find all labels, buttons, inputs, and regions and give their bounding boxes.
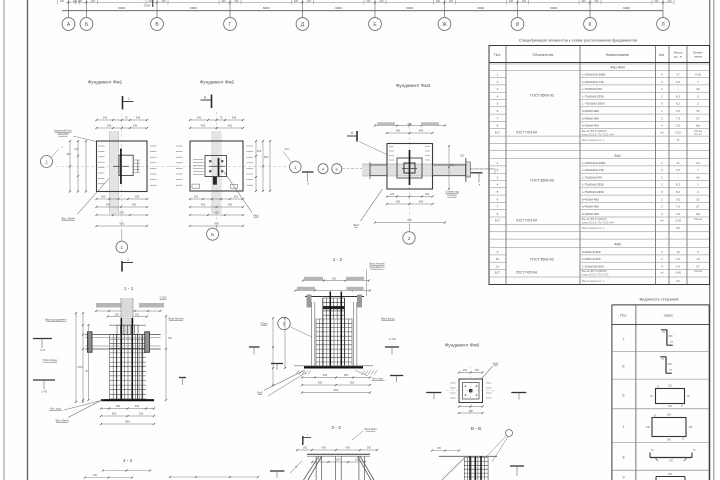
svg-text:b-400х6-400: b-400х6-400 <box>582 205 599 209</box>
svg-text:Фундамент Фм6: Фундамент Фм6 <box>445 343 480 348</box>
svg-text:8,2: 8,2 <box>676 183 681 187</box>
svg-text:1500: 1500 <box>77 366 83 369</box>
svg-text:ГОСТ 8509-93: ГОСТ 8509-93 <box>530 179 553 183</box>
svg-text:6,6: 6,6 <box>676 80 681 84</box>
elevation tmark right of plan Фм2 <box>302 172 314 186</box>
plan Фм1 footing outline <box>97 141 148 192</box>
svg-text:Фм1 (Фм4): Фм1 (Фм4) <box>55 419 68 423</box>
svg-text:L-100х63х6-2990: L-100х63х6-2990 <box>582 73 606 77</box>
plan Фм2 leader Фм2 <box>224 172 259 218</box>
svg-text:27: 27 <box>676 161 680 165</box>
plan Фм1 top dimensions <box>95 116 148 130</box>
svg-text:220: 220 <box>667 0 672 3</box>
svg-text:220: 220 <box>522 0 527 3</box>
svg-text:колонну: колонну <box>447 194 457 197</box>
svg-text:190: 190 <box>101 195 106 199</box>
svg-text:0,4: 0,4 <box>696 161 701 165</box>
plan Фм3 beam band <box>362 164 470 176</box>
section 1-1 upper callouts <box>96 296 167 308</box>
plan Фм1 anchor axis <box>113 149 129 185</box>
svg-text:220: 220 <box>379 0 384 3</box>
svg-text:57: 57 <box>696 116 700 120</box>
svg-text:0,000: 0,000 <box>160 296 167 300</box>
bar row 6 <box>623 357 673 374</box>
svg-text:150: 150 <box>689 426 694 429</box>
svg-text:Наименование: Наименование <box>606 53 630 57</box>
svg-text:b-100х8-450: b-100х8-450 <box>582 212 599 216</box>
svg-text:600: 600 <box>120 211 125 215</box>
svg-text:450: 450 <box>106 203 111 207</box>
svg-text:Анкерный болт: Анкерный болт <box>54 129 73 133</box>
svg-text:71: 71 <box>676 138 680 142</box>
svg-text:6000: 6000 <box>263 6 270 10</box>
svg-text:Фундамент Фм3: Фундамент Фм3 <box>396 83 431 88</box>
section 2-2 top dimensions <box>294 277 371 292</box>
plan Фм2 title <box>200 80 235 85</box>
svg-text:6000: 6000 <box>478 6 485 10</box>
svg-text:L-75х50х5-2930: L-75х50х5-2930 <box>582 94 604 98</box>
svg-text:класс В22,5; П3; F100; W4: класс В22,5; П3; F100; W4 <box>582 221 614 225</box>
svg-text:10: 10 <box>496 257 500 261</box>
svg-text:0,08: 0,08 <box>695 73 701 77</box>
svg-text:Л: Л <box>661 22 664 28</box>
plan Фм3 top dimensions <box>374 122 446 134</box>
svg-text:1: 1 <box>45 160 48 165</box>
svg-text:52: 52 <box>696 197 700 201</box>
svg-text:7,9: 7,9 <box>676 116 681 120</box>
plan Фм3 left beam arm <box>370 162 387 179</box>
axis circle Е <box>369 11 382 31</box>
plan Фм3 right coupling <box>460 154 495 187</box>
svg-text:600: 600 <box>350 381 355 385</box>
svg-text:5: 5 <box>623 394 625 398</box>
svg-text:6000: 6000 <box>550 6 557 10</box>
section 3-3 top dimensions <box>296 447 378 452</box>
section 2-2 base hatch <box>296 371 377 375</box>
svg-text:L-75х50х5-2930: L-75х50х5-2930 <box>582 183 604 187</box>
axis circle Д <box>296 11 309 31</box>
svg-text:ГОСТ 8509-93: ГОСТ 8509-93 <box>530 94 553 98</box>
svg-text:b-450х6-400: b-450х6-400 <box>582 116 599 120</box>
svg-text:6000: 6000 <box>406 6 413 10</box>
svg-text:Фундамент Фм1: Фундамент Фм1 <box>88 80 123 85</box>
svg-text:К: К <box>589 22 592 28</box>
section 1-1 top dimensions <box>95 310 162 318</box>
bar row 1 <box>623 414 694 442</box>
svg-text:90: 90 <box>696 175 700 179</box>
section 3-3 title <box>331 425 341 431</box>
plan Фм6 top dimensions <box>458 369 484 374</box>
section 1-1 column above <box>121 298 133 335</box>
svg-text:8,2: 8,2 <box>676 94 681 98</box>
svg-text:9,5: 9,5 <box>676 197 681 201</box>
svg-text:6000: 6000 <box>190 6 197 10</box>
svg-text:1: 1 <box>497 73 499 77</box>
plan Фм1 bottom dimensions <box>95 195 148 228</box>
svg-text:340: 340 <box>133 124 138 128</box>
svg-text:9,5: 9,5 <box>676 109 681 113</box>
section 2-2 anchor bolts <box>330 292 341 368</box>
svg-text:1: 1 <box>623 425 625 429</box>
svg-text:220: 220 <box>78 0 83 3</box>
section 1-1 beam <box>85 332 161 353</box>
svg-text:Г: Г <box>229 22 232 28</box>
svg-text:240: 240 <box>103 116 108 120</box>
svg-text:Верх фунд.: Верх фунд. <box>381 317 395 321</box>
plan Фм2 anchor axis <box>209 158 225 185</box>
svg-text:450: 450 <box>228 124 233 128</box>
svg-text:450: 450 <box>201 124 206 128</box>
section 2-2 side rails <box>312 302 357 366</box>
svg-text:2LC: 2LC <box>285 147 290 151</box>
svg-text:Бет. подг.: Бет. подг. <box>50 407 61 411</box>
svg-text:350: 350 <box>407 122 412 126</box>
section 4-4 title <box>123 458 133 463</box>
svg-text:0,32: 0,32 <box>675 131 681 135</box>
svg-text:220: 220 <box>307 0 312 3</box>
svg-text:220: 220 <box>436 0 441 3</box>
section В-В title <box>471 426 481 431</box>
bar row 5 <box>623 385 691 409</box>
svg-text:16: 16 <box>676 250 680 254</box>
section 2-2 top plate <box>305 295 364 308</box>
svg-text:280: 280 <box>667 439 672 442</box>
callout circle right of plan Фм2 <box>283 147 301 173</box>
svg-text:300: 300 <box>135 313 140 316</box>
svg-text:220: 220 <box>668 405 673 408</box>
svg-text:450: 450 <box>228 203 233 207</box>
plan Фм3 section flag А <box>347 131 388 155</box>
svg-text:220: 220 <box>449 0 454 3</box>
plan Фм2 bottom axis circle <box>207 225 219 240</box>
svg-text:3 - 3: 3 - 3 <box>331 425 341 431</box>
svg-text:150: 150 <box>355 459 360 462</box>
section 1-1 bottom leader <box>50 399 105 423</box>
svg-text:900: 900 <box>125 420 130 424</box>
plan Фм6 left tmark <box>426 393 441 400</box>
svg-text:Всего массы м. п.: Всего массы м. п. <box>582 279 605 283</box>
section 3-3 right callout <box>352 427 377 440</box>
svg-text:220: 220 <box>91 0 96 3</box>
svg-text:8: 8 <box>497 212 499 216</box>
svg-text:600: 600 <box>214 211 219 215</box>
plan Фм3 callout right below <box>445 190 459 198</box>
svg-text:Бет. подг.: Бет. подг. <box>372 376 383 380</box>
plan Фм3 footing outline <box>387 144 433 190</box>
svg-text:450: 450 <box>66 152 71 156</box>
plan Фм1 column band <box>110 131 119 214</box>
svg-text:300: 300 <box>303 447 308 450</box>
svg-text:450: 450 <box>201 203 206 207</box>
svg-text:450: 450 <box>322 447 327 450</box>
svg-text:5: 5 <box>497 190 499 194</box>
svg-text:b-250х10-250: b-250х10-250 <box>582 257 601 261</box>
svg-text:420: 420 <box>669 460 674 463</box>
svg-text:450: 450 <box>132 203 137 207</box>
svg-text:190: 190 <box>234 195 239 199</box>
svg-text:150: 150 <box>646 426 651 429</box>
plan Фм6 corner dots <box>465 385 478 396</box>
section 1-1 left dimensions <box>75 312 90 403</box>
svg-text:300: 300 <box>469 410 474 413</box>
svg-text:7: 7 <box>497 116 499 120</box>
plan Фм3 title <box>396 83 431 88</box>
plan Фм2 base plate <box>192 156 238 189</box>
svg-text:Фм2: Фм2 <box>257 391 263 395</box>
bar row 9 (cut) <box>623 473 686 480</box>
svg-text:82: 82 <box>676 226 680 230</box>
svg-text:6: 6 <box>497 197 499 201</box>
plan Фм2 right dimensions <box>255 140 271 192</box>
svg-text:150: 150 <box>139 412 144 416</box>
section 2-2 bottom dimensions <box>257 370 384 396</box>
axis circle А <box>62 11 75 31</box>
bar schedule header <box>620 314 673 318</box>
svg-text:БСГ: БСГ <box>495 219 501 223</box>
plan Фм2 footing outline <box>190 141 243 191</box>
svg-text:Фм6: Фм6 <box>493 362 499 366</box>
section В-В ground line <box>439 455 497 457</box>
spec group Фм5 <box>489 243 710 283</box>
svg-text:Обозначение: Обозначение <box>533 53 554 57</box>
svg-text:240: 240 <box>668 473 673 476</box>
svg-text:м³: м³ <box>661 271 664 275</box>
section 2-2 left callout circle <box>278 317 312 337</box>
svg-text:1: 1 <box>497 161 499 165</box>
svg-text:6000: 6000 <box>118 6 125 10</box>
svg-text:190: 190 <box>194 195 199 199</box>
axis circle И <box>511 11 524 31</box>
axis circle Б <box>80 11 93 31</box>
section 1-1 cut flag <box>122 258 133 272</box>
svg-text:450: 450 <box>396 129 401 133</box>
plan Фм6 outline <box>459 379 483 403</box>
svg-text:6000: 6000 <box>623 6 630 10</box>
plan Фм6 side marks <box>450 383 492 398</box>
svg-text:4: 4 <box>497 94 499 98</box>
svg-text:450: 450 <box>419 200 424 204</box>
svg-text:450: 450 <box>344 373 349 377</box>
svg-text:Бм: Бм <box>696 212 700 216</box>
spec table frame <box>489 46 710 285</box>
plan Фм1 base plate <box>119 155 140 175</box>
bar schedule title <box>640 297 679 302</box>
svg-text:ГОСТ 7473-94: ГОСТ 7473-94 <box>516 271 537 275</box>
axis circle К <box>584 11 597 31</box>
svg-text:Бм: Бм <box>696 124 700 128</box>
section 2-2 title <box>333 257 343 263</box>
bar row 7 <box>623 330 674 346</box>
svg-text:b-450х6-450: b-450х6-450 <box>582 109 599 113</box>
svg-text:190: 190 <box>425 192 430 196</box>
section 1-1 anchor bolts <box>121 318 132 401</box>
svg-text:27: 27 <box>676 73 680 77</box>
bar row 8 <box>623 449 696 463</box>
grid axis line <box>62 10 663 12</box>
section В-В rebar cage <box>464 456 488 480</box>
svg-text:6: 6 <box>623 365 625 369</box>
svg-text:300: 300 <box>367 447 372 450</box>
section В-В right tmark <box>510 466 524 476</box>
svg-text:0,9 м³: 0,9 м³ <box>695 132 702 136</box>
svg-text:Обрез фунд.: Обрез фунд. <box>42 358 58 362</box>
svg-text:Фм2: Фм2 <box>253 214 259 218</box>
svg-text:Спецификация элементов к схеме: Спецификация элементов к схеме расположе… <box>519 38 638 43</box>
svg-text:L-100х63х6-600: L-100х63х6-600 <box>582 264 604 268</box>
plan Фм1 left axis circle <box>41 145 64 168</box>
svg-text:220: 220 <box>60 0 65 3</box>
section 2-2 right marks <box>381 317 403 383</box>
section 1-1 rebar cage <box>109 325 146 400</box>
svg-text:9: 9 <box>497 250 499 254</box>
svg-text:10: 10 <box>696 257 700 261</box>
plan Фм2 centerlines <box>168 112 288 222</box>
svg-text:0,000: 0,000 <box>144 4 151 8</box>
svg-text:г: г <box>307 433 308 437</box>
svg-text:90: 90 <box>696 87 700 91</box>
svg-text:0,15: 0,15 <box>40 348 46 352</box>
svg-text:−: − <box>677 175 679 179</box>
svg-text:220: 220 <box>668 385 673 388</box>
plan Фм6 right tmark <box>511 393 526 400</box>
sheet outer border left <box>3 0 5 480</box>
svg-text:Поз.: Поз. <box>494 53 501 57</box>
svg-text:4: 4 <box>497 183 499 187</box>
svg-text:220: 220 <box>234 0 239 3</box>
svg-text:2,8: 2,8 <box>676 212 681 216</box>
section 3-3 bottom left stub dims <box>169 476 259 478</box>
svg-text:L-100х63х6-2990: L-100х63х6-2990 <box>582 161 606 165</box>
svg-text:220: 220 <box>294 0 299 3</box>
plan Фм2 section flag А <box>201 95 212 109</box>
svg-text:0,45: 0,45 <box>42 390 48 394</box>
svg-text:5: 5 <box>497 102 499 106</box>
svg-text:220: 220 <box>161 0 166 3</box>
svg-text:6: 6 <box>497 109 499 113</box>
plan Фм1 right rebar marks <box>150 146 157 185</box>
svg-text:240: 240 <box>197 116 202 120</box>
svg-text:b-450х10-450: b-450х10-450 <box>582 250 601 254</box>
axis circle Г <box>224 11 237 31</box>
svg-text:1 - 1: 1 - 1 <box>124 286 134 292</box>
svg-text:6000: 6000 <box>335 6 342 10</box>
svg-text:8: 8 <box>623 456 625 460</box>
plan Фм2 right rebar marks <box>247 146 254 185</box>
section В-В left marks <box>431 447 460 452</box>
svg-text:280: 280 <box>135 195 140 199</box>
svg-text:ГОСТ 7473-94: ГОСТ 7473-94 <box>516 219 537 223</box>
plan Фм3 centerlines <box>370 122 497 228</box>
svg-text:Б: Б <box>211 232 214 237</box>
svg-text:600: 600 <box>112 412 117 416</box>
spec table header <box>494 51 703 59</box>
svg-text:2,8: 2,8 <box>676 124 681 128</box>
svg-text:860: 860 <box>669 335 674 338</box>
svg-text:2: 2 <box>127 258 129 262</box>
svg-text:1: 1 <box>128 97 130 101</box>
svg-text:Фм1-Фм4: Фм1-Фм4 <box>610 66 624 70</box>
svg-text:Ж: Ж <box>442 22 447 28</box>
plan Фм6 title <box>445 343 480 348</box>
svg-text:220: 220 <box>509 0 514 3</box>
section 3-3 frame top bar <box>307 454 370 456</box>
svg-text:75: 75 <box>125 116 128 120</box>
plan Фм2 top dimensions <box>189 116 244 130</box>
svg-text:Бетон В7,5 (М100): Бетон В7,5 (М100) <box>582 217 607 221</box>
svg-text:280: 280 <box>667 414 672 417</box>
svg-text:В - В: В - В <box>471 426 481 431</box>
section 2-2 left marks <box>249 317 286 386</box>
svg-text:460: 460 <box>668 363 673 366</box>
elevation mark 0.000 <box>144 0 153 8</box>
axis circle pair А Б <box>318 164 370 174</box>
svg-text:БСГ: БСГ <box>495 131 501 135</box>
plan Фм1 left dimensions <box>66 140 87 193</box>
svg-text:250: 250 <box>460 154 465 158</box>
svg-text:Фм2: Фм2 <box>614 154 621 158</box>
svg-text:220: 220 <box>221 0 226 3</box>
svg-text:900: 900 <box>407 218 412 222</box>
svg-text:150: 150 <box>475 369 480 372</box>
svg-text:7: 7 <box>623 338 625 342</box>
plan Фм1 title <box>88 80 123 85</box>
svg-text:215: 215 <box>257 149 262 153</box>
section 1-1 left labels <box>33 318 67 394</box>
svg-text:300: 300 <box>332 278 337 281</box>
svg-text:ед., кг: ед., кг <box>674 55 682 59</box>
svg-text:ГОСТ 8509-93: ГОСТ 8509-93 <box>530 258 553 262</box>
svg-text:0,48: 0,48 <box>675 271 681 275</box>
svg-text:Фундамент Фм2: Фундамент Фм2 <box>200 80 235 85</box>
svg-text:94: 94 <box>676 279 680 283</box>
section 1-1 base plate <box>101 399 154 401</box>
svg-text:Всего массы м. п.: Всего массы м. п. <box>582 226 605 230</box>
svg-text:450: 450 <box>116 404 121 408</box>
svg-text:900: 900 <box>214 222 219 226</box>
svg-text:450: 450 <box>450 164 455 167</box>
svg-text:7: 7 <box>497 205 499 209</box>
plan Фм3 leader <box>353 189 382 227</box>
plan Фм1 left rebar marks <box>98 146 105 184</box>
svg-text:Фм1 (Фм4): Фм1 (Фм4) <box>61 217 75 221</box>
svg-text:340: 340 <box>107 124 112 128</box>
svg-text:чание: чание <box>694 55 703 59</box>
plan Фм6 leader <box>481 362 498 379</box>
svg-text:L-100х63х6-730: L-100х63х6-730 <box>582 168 604 172</box>
svg-text:Эскиз: Эскиз <box>663 314 673 318</box>
svg-text:БСГ: БСГ <box>495 271 501 275</box>
plan Фм2 bottom dimensions <box>189 195 244 228</box>
svg-text:52: 52 <box>696 109 700 113</box>
svg-text:Всего массы м. п.: Всего массы м. п. <box>582 138 605 142</box>
svg-text:Объем: Объем <box>694 269 702 273</box>
section 1-1 title <box>124 286 134 292</box>
svg-text:450: 450 <box>346 447 351 450</box>
svg-text:М24х900: М24х900 <box>58 132 69 136</box>
spec table title <box>519 38 638 43</box>
svg-text:Ведомость стержней: Ведомость стержней <box>640 297 679 302</box>
svg-text:8: 8 <box>497 124 499 128</box>
svg-text:6,6: 6,6 <box>676 168 681 172</box>
svg-text:Верх фундамента: Верх фундамента <box>45 318 67 322</box>
plan Фм3 bottom dimensions <box>374 192 446 224</box>
svg-text:Объем: Объем <box>694 217 702 221</box>
svg-text:450: 450 <box>419 129 424 133</box>
svg-text:4 - 4: 4 - 4 <box>123 458 133 463</box>
section 1-1 bottom dimensions <box>100 404 155 425</box>
svg-text:Фм5: Фм5 <box>614 243 621 247</box>
svg-text:2: 2 <box>408 236 411 241</box>
